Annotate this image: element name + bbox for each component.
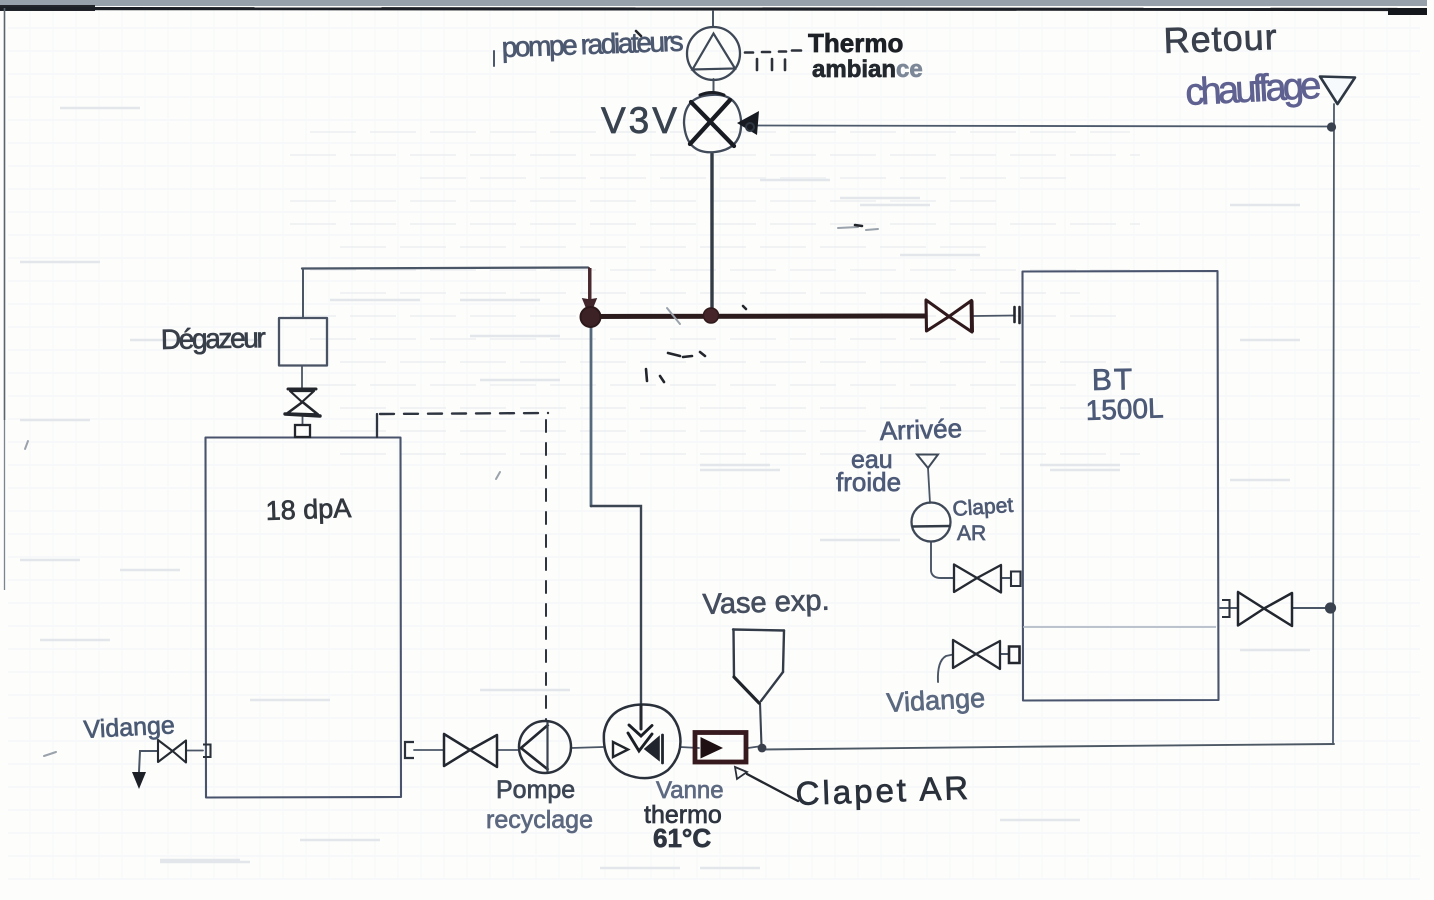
svg-text:61°C: 61°C bbox=[653, 823, 711, 853]
svg-text:Retour: Retour bbox=[1163, 16, 1278, 61]
svg-text:18 dpA: 18 dpA bbox=[265, 493, 352, 526]
svg-text:Pompe: Pompe bbox=[496, 776, 575, 804]
svg-text:Vase exp.: Vase exp. bbox=[702, 585, 830, 621]
svg-text:Arrivée: Arrivée bbox=[879, 413, 962, 446]
svg-text:Vidange: Vidange bbox=[83, 711, 176, 744]
svg-text:Vanne: Vanne bbox=[656, 777, 724, 804]
svg-text:froide: froide bbox=[836, 467, 901, 497]
svg-text:1500L: 1500L bbox=[1085, 392, 1164, 426]
svg-text:V3V: V3V bbox=[601, 100, 680, 141]
svg-text:recyclage: recyclage bbox=[486, 806, 593, 834]
svg-text:Clapet AR: Clapet AR bbox=[795, 769, 972, 812]
svg-text:Dégazeur: Dégazeur bbox=[161, 322, 267, 355]
svg-text:Clapet: Clapet bbox=[952, 494, 1014, 521]
svg-text:Vidange: Vidange bbox=[886, 683, 986, 718]
svg-text:Thermo: Thermo bbox=[808, 28, 903, 58]
svg-text:ambiance: ambiance bbox=[812, 56, 923, 83]
svg-text:pompe radiateurs: pompe radiateurs bbox=[501, 26, 684, 63]
svg-text:BT: BT bbox=[1092, 363, 1135, 397]
svg-text:chauffage: chauffage bbox=[1184, 65, 1322, 114]
svg-text:AR: AR bbox=[957, 522, 986, 545]
